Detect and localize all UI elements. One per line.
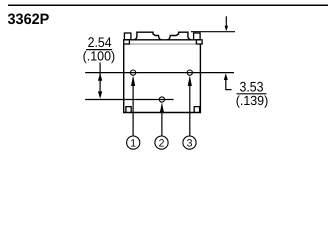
svg-text:(.100): (.100) — [83, 48, 116, 63]
svg-text:2: 2 — [159, 137, 165, 149]
svg-text:(.139): (.139) — [236, 93, 269, 108]
svg-text:3362P: 3362P — [8, 11, 50, 28]
svg-text:3: 3 — [187, 137, 193, 149]
svg-text:1: 1 — [130, 137, 136, 149]
